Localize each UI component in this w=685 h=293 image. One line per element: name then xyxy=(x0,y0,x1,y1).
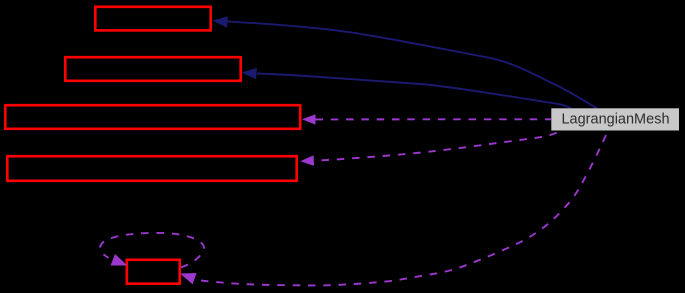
node box3 (used class, third) xyxy=(5,105,300,129)
node box4 (used class, fourth) xyxy=(7,156,296,181)
usage edge to box3 xyxy=(316,118,552,120)
node box1 (base class, top) xyxy=(95,7,210,31)
inheritance edge to box1 xyxy=(227,21,597,108)
arrowhead at box1 xyxy=(213,16,228,27)
self-loop on box5 xyxy=(100,233,204,268)
usage edge to box5 (big curve) xyxy=(196,131,609,286)
node box5 (small, bottom, self-referencing) xyxy=(127,260,180,284)
node LagrangianMesh xyxy=(551,108,679,130)
arrowhead at box3 xyxy=(302,114,316,124)
arrowhead at box4 xyxy=(300,155,314,166)
usage edge to box4 xyxy=(314,131,560,161)
arrowhead at box5 right edge xyxy=(180,273,197,284)
inheritance edge to box2 xyxy=(257,74,571,109)
self-loop arrowhead xyxy=(111,254,128,266)
svg-text:LagrangianMesh: LagrangianMesh xyxy=(561,111,669,127)
arrowhead at box2 xyxy=(242,68,257,79)
node box2 (base class, second) xyxy=(65,57,240,81)
